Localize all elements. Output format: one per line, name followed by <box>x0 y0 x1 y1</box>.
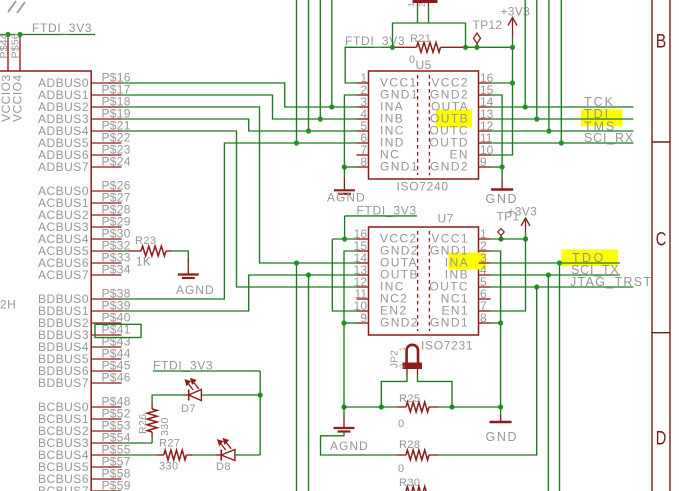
wire TMS <box>491 130 634 132</box>
FTDI pin BDBUS1 / P$39 <box>91 310 121 312</box>
wire riser to INC from top <box>308 0 310 131</box>
resistor R23 <box>128 250 141 252</box>
wire U7 VCC1 pin1 <box>491 238 526 240</box>
svg-text:GND2: GND2 <box>430 160 469 174</box>
junction R21 right <box>463 45 468 50</box>
junction TP1 <box>498 236 503 241</box>
green box around P$41 label <box>95 324 141 337</box>
wire JP2 to R25 bracket <box>406 369 408 376</box>
wire BDBUS0 P$38 to U5 IND <box>122 143 357 299</box>
U5 isolation dashed lines <box>417 75 419 175</box>
FTDI pin ACBUS1 / P$27 <box>91 202 121 204</box>
frame border right <box>651 0 653 491</box>
junction TCK <box>523 104 528 109</box>
U7 pin 1 VCC1 <box>479 238 491 240</box>
junction SCI_RX <box>559 140 564 145</box>
junction U7 VCC1 / +3V3 <box>523 236 528 241</box>
FTDI chip U? body edge <box>0 71 91 491</box>
wire FTDI_3V3 to LEDs <box>153 370 260 372</box>
wire R27 to D8 <box>192 454 216 456</box>
wire AGND to R28 <box>321 432 398 456</box>
svg-text:AGND: AGND <box>330 439 369 453</box>
svg-text:U5: U5 <box>416 58 432 72</box>
svg-text:FTDI_3V3: FTDI_3V3 <box>32 21 92 35</box>
U5 pin 8 GND1 <box>357 166 369 168</box>
FTDI pin BCBUS3 / P$54 <box>91 442 121 444</box>
U5 pin 6 IND <box>357 142 369 144</box>
FTDI pin BCBUS6 / P$58 <box>91 478 121 480</box>
wire ADBUS3 P$19 to U5 INC <box>122 119 357 131</box>
junction top pin VCCIO4 <box>17 32 22 37</box>
FTDI pin BDBUS0 / P$38 <box>91 298 121 300</box>
wire riser to INA from top <box>331 0 333 107</box>
FTDI pin ACBUS3 / P$29 <box>91 226 121 228</box>
svg-text:SCI_RX: SCI_RX <box>584 131 634 145</box>
junction U5 VCC2 <box>510 80 515 85</box>
svg-text:GND1: GND1 <box>380 160 419 174</box>
junction U5 GND1 <box>342 164 347 169</box>
FTDI pin BCBUS5 / P$57 <box>91 466 121 468</box>
svg-text:ADBUS7: ADBUS7 <box>38 160 89 174</box>
FTDI pin ACBUS5 / P$32 <box>91 250 121 252</box>
wire U5 GND1 pins to AGND <box>344 95 356 167</box>
U5 pin 11 OUTD <box>479 142 491 144</box>
FTDI pin BCBUS1 / P$52 <box>91 418 121 420</box>
U7 pin 14 OUTA <box>357 262 369 264</box>
svg-text:2: 2 <box>400 364 407 368</box>
svg-text:1: 1 <box>407 2 416 7</box>
U5 pin 5 INC <box>357 130 369 132</box>
svg-text:C: C <box>656 229 667 251</box>
FTDI pin BDBUS3 / P$41 <box>91 334 121 336</box>
svg-text:9: 9 <box>480 155 487 169</box>
wire ADBUS2 P$18 to U7 OUTA <box>122 107 357 263</box>
FTDI pin ACBUS4 / P$30 <box>91 238 121 240</box>
junction INC riser <box>306 128 311 133</box>
ground GND under U5 <box>501 179 503 189</box>
svg-text:U7: U7 <box>438 212 454 226</box>
svg-text:1: 1 <box>400 347 407 351</box>
FTDI pin ADBUS0 / P$16 <box>91 82 121 84</box>
svg-text:TP12: TP12 <box>473 18 503 32</box>
wire R23 to AGND <box>172 251 188 261</box>
FTDI pin ADBUS6 / P$23 <box>91 154 121 156</box>
FTDI pin BCBUS4 / P$55 <box>91 454 121 456</box>
svg-text:D: D <box>656 428 667 450</box>
U5 pin 7 NC <box>357 154 369 156</box>
svg-text:8: 8 <box>480 311 487 325</box>
ground AGND under U5 <box>343 167 345 178</box>
svg-text:R25: R25 <box>399 393 420 405</box>
wire BDBUS1 P$39 to U7 OUTB <box>122 275 357 311</box>
U5 pin 15 GND2 <box>479 94 491 96</box>
svg-text:P$56: P$56 <box>10 33 22 58</box>
svg-text:P$44: P$44 <box>0 33 10 58</box>
svg-text:1K: 1K <box>136 257 151 269</box>
svg-text:P$46: P$46 <box>102 371 131 385</box>
svg-text:R23: R23 <box>135 235 156 247</box>
wire R21 to +3V3 rail <box>466 46 513 48</box>
FTDI pin BDBUS7 / P$46 <box>91 382 121 384</box>
svg-text:P$24: P$24 <box>102 155 131 169</box>
svg-text:2H: 2H <box>0 298 16 312</box>
FTDI pin ACBUS7 / P$34 <box>91 274 121 276</box>
U5 pin 13 OUTB <box>479 118 491 120</box>
svg-text:R21: R21 <box>410 33 431 45</box>
wire OUTA drop to bottom <box>296 263 298 491</box>
svg-text:FTDI_3V3: FTDI_3V3 <box>345 34 405 48</box>
test point TP12 <box>476 44 478 48</box>
U5 pin 14 OUTA <box>479 106 491 108</box>
FTDI pin ACBUS2 / P$28 <box>91 214 121 216</box>
svg-text:R26: R26 <box>137 414 149 434</box>
junction U7 GND1 pin8 <box>498 320 503 325</box>
junction TDO <box>557 260 562 265</box>
junction +3V3 U5 <box>510 45 515 50</box>
wire R25 row <box>344 406 397 408</box>
svg-text:R28: R28 <box>399 439 420 451</box>
U7 pin 9 GND2 <box>357 322 369 324</box>
wire riser to INB from top <box>319 0 321 119</box>
resistor R26 vertical <box>151 438 153 444</box>
junction R21 left <box>390 45 395 50</box>
ground AGND at R23 <box>187 258 189 274</box>
wire P$55 to R27 <box>122 454 158 456</box>
FTDI pin BCBUS7 / P$59 <box>91 490 121 491</box>
wire FTDI_3V3 top-left <box>0 34 95 36</box>
svg-text:FTDI_3V3: FTDI_3V3 <box>357 203 417 217</box>
U7 pin 11 NC2 <box>357 298 369 300</box>
U5 pin 3 INA <box>357 106 369 108</box>
U7 pin 13 OUTB <box>357 274 369 276</box>
FTDI pin ADBUS2 / P$18 <box>91 106 121 108</box>
svg-text:+3V3: +3V3 <box>508 205 538 219</box>
svg-text:ISO7240: ISO7240 <box>397 180 449 194</box>
svg-text:0: 0 <box>398 463 404 475</box>
junction OUTB drop <box>306 272 311 277</box>
junction U7 GND2 pin9 <box>341 320 346 325</box>
svg-text:0: 0 <box>409 54 415 66</box>
wire R26 to D7 <box>152 395 183 404</box>
svg-text:D8: D8 <box>216 461 231 473</box>
junction IND riser <box>294 140 299 145</box>
resistor R28 <box>397 454 406 456</box>
wire U5 GND2 pins to GND <box>491 95 503 179</box>
FTDI pin BDBUS2 / P$40 <box>91 322 121 324</box>
U7 pin 8 GND1 <box>479 322 491 324</box>
junction TP12 <box>474 45 479 50</box>
U7 pin 16 VCC2 <box>357 238 369 240</box>
resistor R27 <box>157 454 164 456</box>
wire D8 anode <box>235 454 260 456</box>
junction JP2 right <box>449 404 454 409</box>
junction OUTA drop <box>294 260 299 265</box>
svg-text:BDBUS7: BDBUS7 <box>38 376 89 390</box>
op-isolator U5 body <box>369 71 479 179</box>
FTDI pin BDBUS4 / P$43 <box>91 346 121 348</box>
svg-text:9: 9 <box>360 311 367 325</box>
resistor R25 <box>397 406 406 408</box>
svg-text:BCBUS7: BCBUS7 <box>38 484 89 491</box>
yellow highlight TDI <box>581 109 623 126</box>
wire P$32 to R23 <box>122 250 129 252</box>
FTDI pin ADBUS5 / P$22 <box>91 142 121 144</box>
U7 pin 2 GND1 <box>479 250 491 252</box>
junction JTAG_TRST <box>534 284 539 289</box>
wire +3V3 to U7 EN1 <box>491 239 526 311</box>
ground AGND under U7 <box>343 407 345 416</box>
yellow highlight TDO <box>562 249 619 266</box>
svg-text:ISO7231: ISO7231 <box>421 339 473 353</box>
FTDI pin ACBUS6 / P$33 <box>91 262 121 264</box>
wire U5 VCC1 to FTDI_3V3 / R21 <box>345 47 392 83</box>
op-isolator U7 body <box>369 227 479 335</box>
junction TMS <box>546 128 551 133</box>
U5 pin 16 VCC2 <box>479 82 491 84</box>
U7 isolation dashed lines <box>417 231 419 331</box>
U7 pin 6 NC1 <box>479 298 491 300</box>
FTDI top pin VCCIO4 <box>19 40 21 72</box>
junction D7 anode <box>258 392 263 397</box>
svg-text:B: B <box>656 31 667 53</box>
U5 pin 1 VCC1 <box>357 82 369 84</box>
U7 pin 3 INA <box>479 262 491 264</box>
svg-text:GND1: GND1 <box>430 316 469 330</box>
U7 pin 10 EN2 <box>357 310 369 312</box>
wire OUTB drop to bottom <box>308 275 310 491</box>
svg-text:GND: GND <box>486 430 519 444</box>
U5 pin 12 OUTC <box>479 130 491 132</box>
FTDI pin BDBUS5 / P$44 <box>91 358 121 360</box>
wire ADBUS1 P$17 to U5 INB <box>122 95 357 119</box>
FTDI pin ADBUS3 / P$19 <box>91 118 121 120</box>
FTDI pin BCBUS0 / P$48 <box>91 406 121 408</box>
decorative cut label top-left <box>8 1 16 12</box>
wire TDI <box>491 118 634 120</box>
svg-text:330: 330 <box>159 417 171 436</box>
svg-text:D7: D7 <box>181 403 196 415</box>
svg-text:VCCIO4: VCCIO4 <box>11 74 25 122</box>
svg-text:330: 330 <box>159 461 179 473</box>
wire SCI_TX <box>491 274 621 276</box>
junction top pin VCCIO3 <box>5 32 10 37</box>
wire U5 VCC2 pin16 <box>491 82 513 84</box>
U7 pin 7 EN1 <box>479 310 491 312</box>
wire ADBUS0 P$16 to U5 INA <box>122 83 357 107</box>
wire R21 bypass bracket <box>393 23 466 47</box>
svg-text:ACBUS7: ACBUS7 <box>38 268 89 282</box>
svg-text:8: 8 <box>360 155 367 169</box>
U7 pin 12 INC <box>357 286 369 288</box>
svg-text:P$34: P$34 <box>102 263 131 277</box>
jumper JP2 <box>407 345 418 363</box>
wire D7 anode <box>201 394 260 396</box>
yellow highlight INA <box>449 253 487 270</box>
FTDI pin ADBUS7 / P$24 <box>91 166 121 168</box>
wire P$54 to R26 <box>122 442 153 444</box>
junction INB riser <box>318 116 323 121</box>
wire SCI_RX <box>491 142 634 144</box>
svg-text:R30: R30 <box>399 477 420 489</box>
wire U7 GND1 chain to GND <box>491 251 501 415</box>
junction U7 VCC2 <box>342 236 347 241</box>
U5 pin 4 INB <box>357 118 369 120</box>
wire +3V3 to U5 VCC2 and EN <box>491 47 513 155</box>
U7 pin 15 GND2 <box>357 250 369 252</box>
svg-text:JTAG_TRST: JTAG_TRST <box>570 275 652 289</box>
wire ADBUS4 P$21 to U7 INC <box>122 131 357 287</box>
U5 pin 9 GND2 <box>479 166 491 168</box>
U5 pin 2 GND1 <box>357 94 369 96</box>
FTDI top pin VCCIO3 <box>7 40 9 72</box>
svg-text:GND2: GND2 <box>380 316 419 330</box>
svg-text:0: 0 <box>398 418 404 430</box>
wire JTAG_TRST <box>491 286 634 288</box>
ground GND under U7 <box>500 415 502 421</box>
wire FTDI_3V3 to U7 VCC2 and EN2 <box>345 215 417 217</box>
FTDI pin ACBUS0 / P$26 <box>91 190 121 192</box>
U5 pin 10 EN <box>479 154 491 156</box>
junction SCI_TX <box>546 272 551 277</box>
junction AGND R25 left <box>341 404 346 409</box>
wire TDO <box>491 262 621 264</box>
led D7 <box>188 390 190 401</box>
svg-text:2: 2 <box>418 2 427 7</box>
wire riser to IND from top <box>296 0 298 143</box>
svg-text:P$59: P$59 <box>102 479 131 491</box>
wire U7 GND2 chain to AGND <box>344 251 357 407</box>
U7 pin 4 INB <box>479 274 491 276</box>
jumper JP1 partially cut at top <box>417 0 419 6</box>
svg-text:R27: R27 <box>159 438 180 450</box>
led D8 <box>220 450 222 461</box>
FTDI pin ADBUS4 / P$21 <box>91 130 121 132</box>
FTDI pin BDBUS6 / P$45 <box>91 370 121 372</box>
svg-text:AGND: AGND <box>176 283 215 297</box>
junction JP2 left <box>379 404 384 409</box>
wire R28 to JTAG_TRST riser <box>438 287 537 455</box>
wire TCK <box>491 106 634 108</box>
junction TDI <box>534 116 539 121</box>
junction INA riser <box>329 104 334 109</box>
junction U5 GND2 <box>500 164 505 169</box>
junction R25 right end <box>498 404 503 409</box>
resistor R21 <box>393 46 417 48</box>
yellow highlight OUTB <box>436 110 472 128</box>
FTDI pin BCBUS2 / P$53 <box>91 430 121 432</box>
U7 pin 5 OUTC <box>479 286 491 288</box>
FTDI pin ADBUS1 / P$17 <box>91 94 121 96</box>
